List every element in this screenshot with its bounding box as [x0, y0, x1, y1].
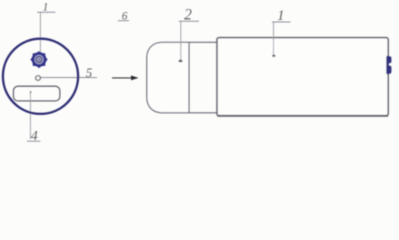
terminal tab upper (right edge of body) — [387, 56, 391, 63]
cap item 2 outline (side view dome) — [147, 42, 189, 113]
terminal tab lower (right edge of body) — [387, 66, 391, 74]
knob item 1 (knurled screw head) — [31, 51, 48, 68]
shelf item 2 — [179, 20, 199, 22]
svg-text:2: 2 — [184, 6, 192, 23]
shelf item 1 (side view) — [272, 21, 291, 23]
terminal strip (right edge of body) — [386, 56, 388, 74]
leader line item 1 (side view body) — [273, 22, 275, 55]
neck top line — [189, 41, 217, 43]
body bottom edge emphasis — [218, 115, 389, 117]
small hole item 5 (front view) — [36, 76, 41, 81]
view direction arrow — [112, 77, 132, 79]
cap right edge line — [188, 42, 190, 113]
svg-text:4: 4 — [31, 129, 38, 144]
body item 1 (side view cylinder rectangle) — [217, 38, 388, 116]
svg-text:1: 1 — [277, 8, 285, 24]
slot item 4 (rounded rectangle in front view) — [14, 86, 60, 101]
neck bottom line — [189, 112, 217, 114]
front view outer circle — [3, 39, 78, 114]
leader line item 4 — [29, 92, 31, 139]
svg-text:1: 1 — [43, 1, 49, 13]
underline of label 4 — [27, 140, 40, 142]
leader line item 2 — [180, 21, 182, 60]
leader line item 1 (front view) — [39, 12, 41, 53]
svg-text:5: 5 — [86, 65, 93, 80]
underline of label 6 — [118, 20, 129, 22]
leader line item 5 — [40, 77, 97, 79]
shelf item 1 (front view) — [37, 11, 55, 13]
